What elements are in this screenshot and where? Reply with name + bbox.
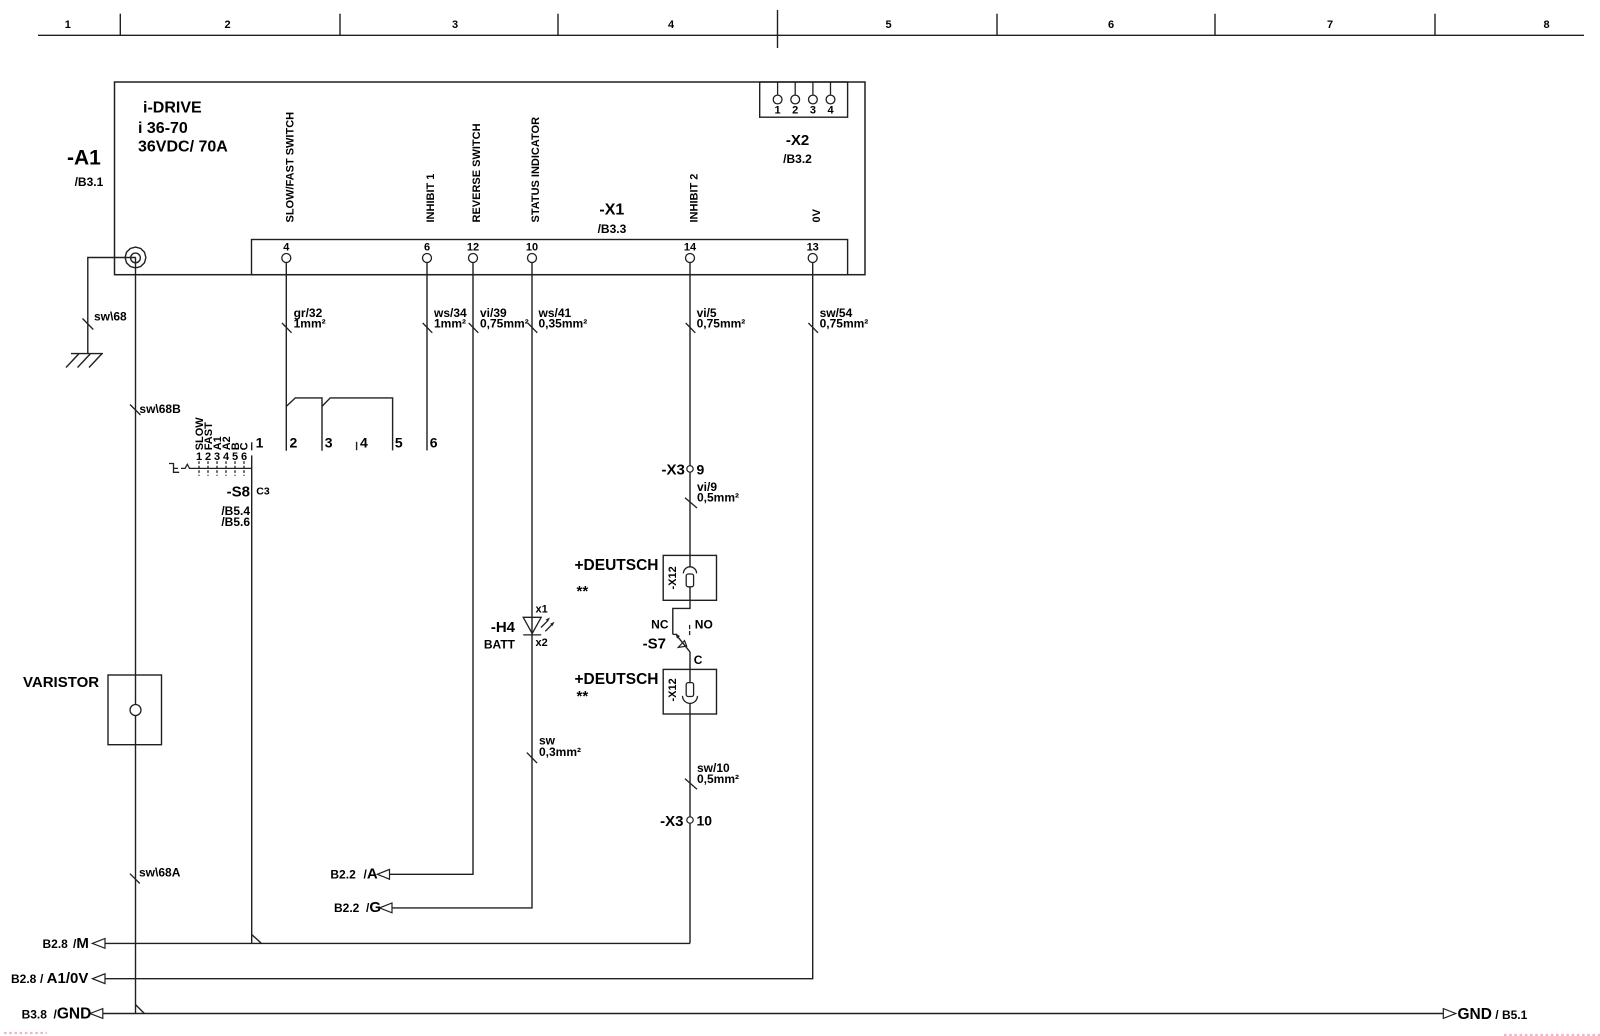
slash ws/34 [423,323,433,333]
svg-text:6: 6 [424,242,430,254]
svg-text:/B3.3: /B3.3 [598,222,627,236]
switch S8 actuator wave symbol [181,464,194,468]
signal arrow /A [377,869,389,879]
slash vi/5 [686,323,696,333]
wire S7 common down [689,652,691,683]
svg-text:1mm²: 1mm² [434,316,466,330]
switch S8 contact row line [194,467,252,469]
svg-text:/B3.1: /B3.1 [75,175,104,189]
svg-text:0,5mm²: 0,5mm² [697,772,739,786]
wire X1:4 down to S8 contact 2 [285,263,287,451]
bridge wire contact 2 to 3 [286,398,322,451]
svg-text:-S7: -S7 [643,635,666,652]
svg-text:2: 2 [290,434,298,450]
X12 upper socket arc [683,567,696,574]
svg-text:B3.8: B3.8 [22,1007,48,1021]
bolt terminal on A1 [125,247,146,268]
svg-text:3: 3 [452,19,458,31]
svg-text:2: 2 [792,105,798,117]
svg-text:C3: C3 [256,485,270,497]
svg-text:5: 5 [232,451,238,463]
wire X1:12 down to /A [390,263,474,875]
svg-text:10: 10 [697,813,713,829]
signal arrow /M [92,939,105,949]
svg-text:/A: /A [364,866,378,883]
svg-text:3: 3 [325,434,333,450]
svg-text:5: 5 [395,434,403,450]
svg-text:B2.2: B2.2 [330,868,356,882]
wire X1:10 down to LED [531,263,533,635]
svg-text:2: 2 [205,451,211,463]
svg-text:-X12: -X12 [667,678,679,701]
ruler tick 2/3 [339,14,341,36]
svg-text:-X3: -X3 [660,813,683,830]
wire bolt down to GND rail [135,258,137,1014]
ruler tick 5/6 [996,14,998,36]
svg-text:1: 1 [196,451,202,463]
controller U A1 outline box [115,82,866,275]
net rail /GND [103,1013,1443,1015]
X2 pin circles 1-4 [773,95,835,104]
LED H4 emission arrow 1 [541,621,548,628]
svg-text:2: 2 [224,19,230,31]
svg-text:-X1: -X1 [599,202,624,219]
svg-text:0,3mm²: 0,3mm² [539,745,581,759]
svg-text:x2: x2 [536,637,548,649]
connector X12 lower box [663,669,716,714]
S7 blade arrowhead [676,634,680,639]
svg-text:/GND: /GND [54,1005,92,1022]
svg-text:0,75mm²: 0,75mm² [820,316,869,330]
corner jog into /M rail [252,935,262,944]
X12 lower pin pill [686,683,693,697]
slash vi/39 [469,323,479,333]
connector X3 pin 10 [687,817,693,823]
ruler column numbers [65,19,1550,31]
varistor circle [130,705,141,716]
X12 lower socket arc [683,696,698,704]
ruler tick 4/5 long [777,10,779,48]
page break marker bottom right [1504,1034,1600,1036]
S7 NC terminal tick [673,633,678,635]
svg-text:/ A1/0V: / A1/0V [40,970,88,987]
svg-text:4: 4 [283,242,290,254]
earth ground symbol [66,354,103,368]
svg-text:12: 12 [467,242,479,254]
svg-text:10: 10 [526,242,538,254]
wire X1:6 down to S8 contact 6 [426,263,428,451]
wire S8 contact 1 down to /M rail [251,455,253,943]
svg-text:C: C [694,653,703,667]
svg-text:3: 3 [214,451,220,463]
svg-text:/G: /G [366,899,381,916]
svg-text:0,75mm²: 0,75mm² [480,316,529,330]
slash sw/10 [685,779,697,790]
LED H4 cathode bar [523,634,541,636]
svg-text:-H4: -H4 [491,619,516,636]
svg-text:/B5.6: /B5.6 [221,515,250,529]
svg-text:/B3.2: /B3.2 [783,152,812,166]
svg-text:GND / B5.1: GND / B5.1 [1458,1006,1528,1023]
connector X12 upper box [663,555,716,600]
svg-text:B2.8: B2.8 [11,972,37,986]
svg-text:+DEUTSCH: +DEUTSCH [575,671,659,688]
svg-text:i 36-70: i 36-70 [138,120,188,137]
svg-text:1: 1 [775,105,781,117]
svg-text:4: 4 [827,105,834,117]
switch S8 row numbers 1-6 [196,451,247,463]
signal arrow /G [380,903,393,913]
signal arrow /GND [90,1009,103,1019]
svg-text:5: 5 [885,19,891,31]
S8 contact labels 2 3 4 5 6 [290,434,438,450]
svg-text:8: 8 [1543,19,1549,31]
LED H4 emission arrow 2 [545,625,552,632]
svg-text:-A1: -A1 [67,147,101,170]
LED H4 triangle [523,617,541,633]
svg-text:sw\68B: sw\68B [139,402,181,416]
net rail /M [105,942,690,944]
slash sw\68 [83,319,94,330]
svg-text:sw\68A: sw\68A [139,866,181,880]
page break marker bottom left [4,1032,47,1034]
svg-text:7: 7 [1327,19,1333,31]
svg-text:9: 9 [697,461,705,477]
slash sw\68B [130,405,141,416]
S8 contact 4 stub [356,442,358,450]
svg-text:**: ** [577,583,589,600]
svg-text:NO: NO [695,617,713,631]
svg-text:B2.8: B2.8 [43,937,69,951]
signal arrow /A1/0V [93,974,106,984]
connector X3 pin 9 [687,466,693,472]
wire X12 to S7 NC [673,587,690,635]
wire LED down to /G [392,635,532,908]
ruler tick 1/2 [119,14,121,36]
S7 NO terminal dashed [689,625,691,635]
bridge wire contact 3 to 5 [322,398,393,451]
svg-text:6: 6 [430,434,438,450]
connector X2 box [760,82,848,117]
svg-text:0,5mm²: 0,5mm² [697,491,739,505]
svg-text:+DEUTSCH: +DEUTSCH [575,557,659,574]
slash gr/32 [282,323,292,333]
svg-text:VARISTOR: VARISTOR [23,674,99,691]
svg-text:SLOW/FAST SWITCH: SLOW/FAST SWITCH [284,112,296,223]
svg-text:0V: 0V [811,208,823,222]
wire X12 lower to /M rail [689,703,691,943]
ruler tick 6/7 [1214,14,1216,36]
varistor R1 box [108,675,162,745]
svg-text:1mm²: 1mm² [294,316,326,330]
svg-text:C: C [239,442,251,450]
svg-text:BATT: BATT [484,637,516,651]
svg-text:B2.2: B2.2 [334,901,360,915]
svg-text:1: 1 [65,19,71,31]
svg-text:36VDC/ 70A: 36VDC/ 70A [138,139,228,156]
svg-text:i-DRIVE: i-DRIVE [143,100,202,117]
svg-text:-X3: -X3 [661,462,684,479]
svg-text:-X12: -X12 [667,566,679,589]
S7 actuator triangle [678,641,686,648]
svg-text:14: 14 [684,242,697,254]
column ruler line [38,34,1584,36]
svg-text:sw\68: sw\68 [94,309,127,323]
wire X1:13 down to /A1/0V [105,263,813,979]
X2 pin stubs [778,82,831,95]
wire bolt to earth [88,258,136,354]
svg-text:4: 4 [360,434,368,450]
svg-text:0,35mm²: 0,35mm² [539,316,588,330]
svg-text:-X2: -X2 [786,132,809,149]
svg-text:x1: x1 [536,604,548,616]
svg-text:NC: NC [651,617,669,631]
svg-text:3: 3 [810,105,816,117]
svg-text:4: 4 [223,451,230,463]
corner jog into GND rail [136,1005,145,1014]
X2 pin numbers [775,105,835,117]
svg-text:4: 4 [668,19,675,31]
slash sw\68A [130,874,140,884]
svg-text:13: 13 [807,242,819,254]
svg-text:1: 1 [256,434,264,450]
switch S8 actuator step symbol [169,464,179,473]
S7 switch blade [677,635,691,652]
slash vi/9 [685,498,697,508]
terminal strip X1 box [252,240,848,275]
svg-text:0,75mm²: 0,75mm² [697,316,746,330]
signal arrow GND right [1443,1009,1456,1019]
ruler tick 7/8 [1434,14,1436,36]
svg-text:6: 6 [241,451,247,463]
svg-text:INHIBIT 1: INHIBIT 1 [425,174,437,223]
X12 upper pin pill [686,574,693,587]
svg-text:6: 6 [1108,19,1114,31]
svg-text:REVERSE SWITCH: REVERSE SWITCH [471,123,483,222]
slash sw/54 [808,323,818,333]
switch S8 dashed position ticks [199,461,244,475]
svg-text:INHIBIT 2: INHIBIT 2 [689,174,701,223]
svg-text:/M: /M [73,935,89,952]
wire X1:14 down to X12 connector [689,263,691,567]
S8 contact 1 stub [251,442,253,450]
svg-text:**: ** [577,688,589,705]
ruler tick 3/4 [557,14,559,36]
svg-text:-S8: -S8 [227,483,250,500]
svg-text:STATUS INDICATOR: STATUS INDICATOR [530,117,542,223]
slash sw 0,3mm2 [527,753,537,764]
slash ws/41 [528,323,538,333]
